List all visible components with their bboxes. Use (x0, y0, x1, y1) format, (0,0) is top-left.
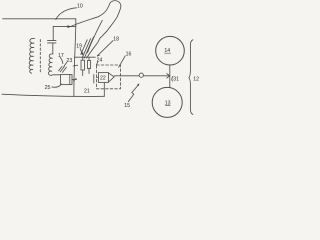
wheel 14 (156, 36, 185, 65)
dashed core link (39, 40, 41, 73)
armature bar 19 (75, 56, 96, 58)
push rod 15 (114, 75, 169, 77)
svg-text:23: 23 (67, 58, 73, 64)
wheel 13 (152, 87, 182, 117)
leader 17 (60, 57, 63, 63)
riser to unit (103, 83, 105, 96)
coil 17 (right coil) (48, 54, 52, 76)
box 25 (61, 75, 73, 85)
svg-text:12: 12 (193, 77, 199, 83)
leader 25 (52, 84, 61, 87)
wire right vertical (74, 26, 76, 96)
link box to wire (72, 79, 76, 82)
wire bottom (2, 94, 104, 96)
hatching stem 18 (81, 37, 94, 58)
leader 24 (96, 62, 97, 65)
coupling arc (172, 76, 173, 81)
svg-text:16: 16 (126, 51, 132, 57)
leader 15 zigzag (128, 85, 138, 102)
leader 23 (64, 62, 67, 66)
bulb lever outline (71, 1, 121, 59)
rod arrow at shaft (167, 74, 170, 78)
node tip of lever at wire (67, 25, 72, 28)
leader 16 (119, 56, 126, 68)
svg-text:10: 10 (77, 4, 83, 10)
wire corner to inner bracket (53, 19, 76, 27)
capacitor C (48, 26, 57, 54)
leader 10 (56, 8, 77, 20)
svg-text:19: 19 (76, 44, 82, 50)
armature hatch (59, 66, 67, 72)
svg-text:25: 25 (45, 85, 51, 91)
leader 18 (97, 41, 113, 56)
contact stubs (83, 57, 89, 75)
svg-text:21: 21 (84, 89, 90, 95)
svg-text:31: 31 (173, 77, 179, 83)
dashed unit box (97, 65, 121, 89)
svg-text:18: 18 (113, 36, 119, 42)
actuator box 22 (98, 73, 108, 83)
junction tick (73, 64, 77, 67)
rod node (139, 73, 143, 77)
brace 12 (189, 40, 193, 115)
svg-text:15: 15 (124, 103, 130, 109)
contact block right (87, 61, 90, 69)
wire top horizontal 10 (3, 18, 76, 20)
svg-text:22: 22 (100, 76, 106, 82)
short wire (93, 75, 95, 84)
contact block left (81, 60, 85, 70)
arrow 19 (80, 49, 82, 55)
shaft between wheels (169, 65, 171, 88)
lever rod inside bulb (88, 20, 103, 52)
coil left (horn coil) (29, 38, 35, 73)
